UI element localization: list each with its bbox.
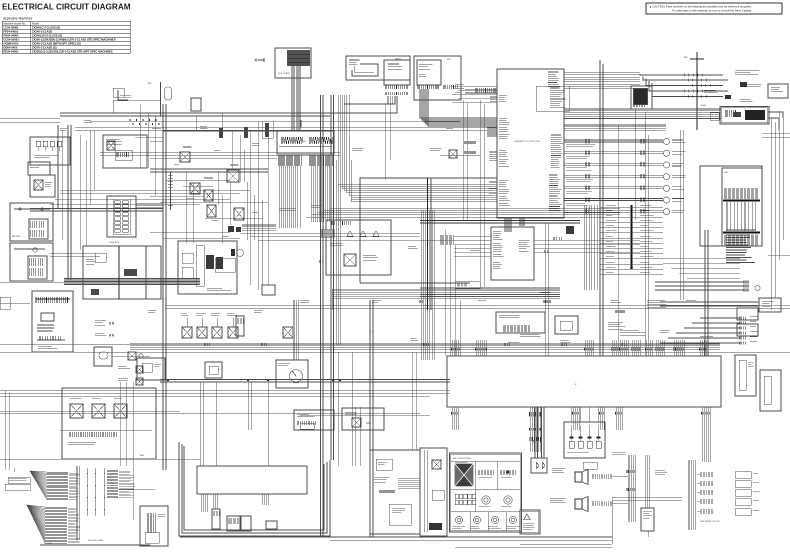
light switch box: [496, 312, 545, 333]
bottom labels: [225, 532, 243, 534]
heavy vertical pair center: [427, 178, 429, 310]
wire bottom left edge: [13, 468, 15, 472]
flasher box T2: [191, 98, 201, 111]
far right box: [760, 370, 781, 411]
key harness bundle left: [280, 166, 301, 228]
relay K4: [190, 183, 200, 194]
R-A labels: [106, 139, 122, 144]
relay K8: [234, 208, 244, 220]
bottom small box: [641, 508, 654, 531]
wires A3 elbow right into controller: [420, 108, 497, 118]
key switch SW1: [277, 131, 334, 154]
slow blow label: [120, 95, 131, 97]
AC grid lines: [451, 489, 521, 491]
wire from controller down left: [479, 100, 481, 287]
connector bar bottom: [723, 232, 760, 234]
vertical bundle center: [336, 160, 340, 345]
component X3: [136, 378, 143, 385]
stub groups above big box: [452, 340, 460, 356]
small connector under key: [321, 229, 334, 237]
relay K10: [352, 418, 361, 427]
bundle y289 left extension: [332, 289, 560, 310]
key switch contacts left: [281, 137, 303, 144]
bat tick: [690, 58, 704, 60]
AC row1 labels: [479, 476, 492, 478]
svg-text:SW: SW: [303, 141, 306, 143]
fan2 labels: [68, 508, 80, 543]
fusible links: [36, 141, 41, 147]
connector wires: [727, 202, 756, 231]
relay box above fans: [62, 388, 156, 459]
svg-text:GROUND (CAB): GROUND (CAB): [88, 539, 103, 542]
AC connector right: [531, 458, 547, 473]
long horizontals mid right: [165, 304, 790, 306]
squiggle wires: [86, 468, 89, 516]
top band mesh horizontals: [100, 151, 340, 153]
routing rectangles bottom: [179, 442, 330, 536]
console fan wires: [398, 477, 420, 479]
mid bus 2: [160, 380, 450, 383]
hour meter A7: [205, 362, 222, 378]
caution note box: [646, 3, 782, 14]
fusible link box F1: [30, 137, 70, 165]
controller output rows to lamps: [564, 139, 663, 141]
G1 top pin row: [36, 297, 68, 303]
svg-text:Machine model No.: Machine model No.: [4, 21, 27, 25]
controller left stub wires: [487, 119, 497, 121]
x530 bundle dark segments: [530, 437, 531, 441]
cab harness relay box A5: [720, 107, 769, 125]
box A1 internal wire: [352, 64, 378, 76]
junction dots: [167, 380, 341, 382]
component X2: [136, 366, 143, 373]
controller right pin labels g4: [549, 175, 562, 213]
long vertical pair B: [330, 95, 332, 460]
resistor chain vertical: [168, 175, 173, 205]
glow controller box G1: [32, 291, 73, 352]
long wire y390: [0, 389, 450, 391]
washer pump cylinder: [212, 509, 220, 529]
key switch bar: [279, 145, 332, 147]
cigar lighter box: [710, 112, 719, 120]
ECM pin grid: [287, 50, 309, 66]
wires A3 down to bus: [420, 89, 428, 118]
bus k3: [150, 168, 268, 170]
bottom right extra wires: [520, 543, 612, 545]
converter inner: [145, 532, 159, 543]
left edge wires y118: [0, 117, 60, 119]
relay box connector strip: [70, 432, 116, 437]
table rows text: [4, 25, 116, 53]
A6 labels: [762, 301, 773, 306]
wire slow blow: [113, 100, 160, 102]
harness fan 2: [27, 505, 45, 543]
fan1 left connector boxes: [8, 477, 30, 483]
bottom bus to line: [647, 531, 649, 537]
A3 labels: [419, 64, 432, 69]
bus band verticals: [162, 104, 164, 470]
routing rect bottom: [360, 282, 470, 284]
svg-text:FF04-04001-: FF04-04001-: [4, 29, 20, 33]
relay K6: [207, 205, 216, 217]
long wire y393: [0, 392, 450, 394]
wires left top: [57, 125, 59, 208]
left vertical bundle x420-436: [421, 210, 434, 360]
A2 connector pins: [386, 85, 407, 89]
relay K12: [344, 254, 356, 266]
bottom center extra verticals: [354, 407, 356, 466]
label rows right-mid: [600, 206, 663, 208]
wire left edge 2: [0, 302, 30, 304]
component X1: [128, 352, 136, 360]
fan vertical bus: [76, 466, 80, 540]
A8 labels: [278, 363, 290, 365]
radio cd module A10: [491, 227, 534, 280]
long label line: [118, 488, 155, 490]
F1 labels: [34, 155, 58, 158]
center bottom vertical bus: [628, 455, 636, 522]
AC labels bottom: [452, 527, 465, 529]
svg-text:ZX270-3 CLASS (S): ZX270-3 CLASS (S): [32, 45, 57, 49]
svg-text:ZX240LCH-3 CLASS (S): ZX240LCH-3 CLASS (S): [32, 33, 62, 37]
relay dark block: [745, 110, 765, 120]
right mid boxes: [737, 308, 758, 320]
stub groups below big box: [452, 407, 458, 430]
key harness labels mid: [279, 208, 296, 210]
svg-text:ZX200-3,225US(R)-3,240(N)-3,27: ZX200-3,225US(R)-3,240(N)-3,270-3 CLASS …: [32, 37, 116, 41]
tuner labels: [330, 243, 342, 245]
M1 dark cluster b: [216, 257, 223, 269]
wires row2: [660, 301, 758, 303]
solenoid V5: [283, 327, 293, 338]
wire left edge 1: [0, 281, 64, 283]
band tick marks: [130, 119, 156, 121]
connector CN-3 ticks: [476, 88, 497, 93]
fuse box inner strip: [113, 199, 130, 234]
ECM grid line: [288, 53, 310, 55]
bus rows to right with ticks: [640, 74, 723, 75]
condenser row: [455, 281, 480, 288]
small box T1: [113, 88, 124, 97]
bottom left edge verticals: [4, 390, 6, 470]
routing rect big center: [360, 178, 497, 283]
console rows: [374, 477, 389, 482]
ignition small box: [94, 347, 112, 366]
svg-text:HCM04-001-: HCM04-001-: [4, 41, 19, 45]
A2 connector pins row2: [386, 92, 407, 95]
mechatro controller U2: [497, 69, 564, 218]
box A1 internal wire2: [354, 66, 374, 72]
heavy vertical right-mid: [631, 205, 633, 268]
relay mesh horizontals: [166, 179, 230, 181]
svg-text:(SEE WIPER CIRCUIT): (SEE WIPER CIRCUIT): [700, 521, 720, 523]
controller output bus 3: [564, 125, 666, 130]
solenoid V4: [228, 327, 238, 338]
controller output bus top: [564, 72, 640, 74]
left edge small box: [0, 297, 10, 309]
svg-text:To order parts on the drawing,: To order parts on the drawing, be sure t…: [672, 9, 752, 13]
component box tb: [262, 121, 273, 138]
right fanout boxes: [700, 472, 713, 477]
SAE label block: [726, 230, 756, 263]
tick group right of center: [465, 141, 475, 144]
battery cells: [30, 221, 44, 228]
AC condenser icon dark: [455, 464, 473, 486]
svg-text:KEY: KEY: [447, 59, 452, 61]
battery cells frame: [29, 219, 48, 239]
right edge stubs: [762, 132, 790, 134]
heavy bus above A10: [420, 220, 580, 222]
slow blow fuse F2: [28, 162, 50, 175]
tuner aux components: [347, 231, 379, 236]
J1 dark cluster: [124, 269, 137, 276]
M1 vertical strip: [196, 245, 204, 286]
small box A11: [555, 316, 578, 334]
relay K13: [449, 150, 457, 158]
main power bus dark: [64, 279, 200, 285]
wire left column mid: [0, 343, 160, 345]
wide lower box A12: [197, 466, 307, 494]
G1 inner relay: [41, 313, 54, 321]
svg-text:ZX240-3 CLASS (WITH OPT. SPEC): ZX240-3 CLASS (WITH OPT. SPEC) (S): [32, 41, 81, 45]
wires J1939 with X ticks: [655, 281, 744, 283]
connector bar block CAB/DECK: [722, 168, 762, 246]
wires A10 right to right side: [534, 239, 640, 241]
console inner box: [389, 504, 411, 525]
vertical bundle x584: [584, 205, 597, 290]
tuner aux pins top: [332, 221, 351, 225]
relay mesh verticals: [185, 172, 187, 243]
svg-text:MECHATRO CONTROLLER: MECHATRO CONTROLLER: [514, 140, 540, 143]
svg-text:Model: Model: [32, 21, 39, 25]
wires down from mid: [199, 382, 201, 466]
mid right label rows: [647, 300, 667, 307]
small box motor: [266, 521, 277, 529]
controller right pin labels g3 dense: [551, 135, 563, 168]
box A1 labels: [349, 60, 359, 65]
scattered labels band3: [540, 292, 550, 294]
solenoid V1: [182, 327, 192, 338]
speaker 1: [575, 470, 588, 485]
warning box bottom: [520, 510, 540, 534]
monitor screen dark: [634, 89, 647, 104]
safety relay inner: [417, 60, 441, 85]
top right corner small box: [768, 84, 788, 98]
fuel sender box right: [735, 355, 756, 396]
far right mid box: [700, 166, 762, 246]
A10 right labels: [519, 240, 530, 251]
AC connector pins: [536, 462, 539, 469]
A3 pins g2: [444, 85, 457, 89]
junction box J1: [83, 246, 161, 299]
wire bundle into gauge: [293, 300, 298, 360]
solenoid V3: [212, 327, 222, 338]
left low mesh: [119, 382, 121, 466]
tiny labels bottom right: [655, 470, 667, 475]
R-A inner: [115, 150, 132, 160]
receiver box A6: [759, 298, 781, 312]
wire elbow A2 to left bus: [344, 96, 395, 104]
controller left pin labels g3: [499, 150, 509, 166]
key pin labels right dark: [309, 155, 332, 166]
wires A10 left: [454, 235, 491, 237]
connector arrows right-mid: [554, 237, 562, 240]
controller bottom stubs: [505, 218, 511, 232]
top-left wire entry: [118, 90, 128, 100]
battery terminal: [19, 208, 21, 210]
fuel labels upper: [95, 320, 106, 325]
B2 wire: [14, 248, 45, 250]
A5 pins: [726, 110, 736, 117]
verticals misc bottom: [544, 223, 546, 356]
svg-text:2P 150A: 2P 150A: [44, 542, 52, 545]
gauge dial: [290, 370, 303, 383]
harness fan 1: [30, 471, 47, 500]
center bundle elbows to horizontal band: [338, 130, 497, 184]
controller right pin labels g2: [550, 88, 566, 108]
speaker labels left: [552, 468, 566, 473]
A2 labels: [388, 64, 402, 69]
solenoid V2: [197, 327, 207, 338]
relay box labels: [68, 442, 96, 445]
controller left stub group4: [490, 96, 497, 98]
battery relay K2: [30, 175, 55, 197]
G1 mid pins: [40, 336, 61, 340]
svg-text:DD04-0401-: DD04-0401-: [4, 45, 19, 49]
svg-text:CC04-05001-: CC04-05001-: [4, 37, 20, 41]
warning box content: [524, 514, 530, 520]
R-A pin strip: [117, 152, 128, 157]
tick clusters on main buses: [205, 343, 209, 346]
relay K5: [204, 190, 213, 201]
monitor pins: [633, 105, 644, 108]
gauge box A8: [276, 360, 308, 388]
svg-text:FUSE BOX: FUSE BOX: [109, 242, 120, 244]
controller left stub group3: [489, 181, 497, 183]
svg-text:KEY PLATE: KEY PLATE: [278, 72, 290, 75]
svg-text:A&P: A&P: [140, 454, 145, 457]
M1 labels: [207, 288, 231, 291]
indicator lamp circles: [663, 138, 669, 144]
controller left pin labels g4: [499, 180, 510, 205]
scattered labels band4: [254, 310, 263, 312]
wires A2 down: [388, 96, 395, 104]
bus top-left horizontal band: [60, 112, 330, 114]
wire elbow 2: [330, 96, 397, 113]
small box K9: [262, 285, 275, 295]
scattered labels band1: [152, 128, 161, 130]
fan bottom wire: [40, 544, 150, 546]
svg-text:ELECTRICAL CIRCUIT DIAGRAM: ELECTRICAL CIRCUIT DIAGRAM: [2, 3, 131, 12]
fuse box FB1: [107, 196, 136, 237]
fuse pill: [165, 87, 172, 100]
J1 inner components: [95, 253, 106, 262]
fan1 wire block: [47, 472, 68, 500]
mid bottom bundle to box: [645, 455, 649, 508]
M1 dark cluster: [206, 255, 214, 269]
right top dark blobs: [740, 82, 747, 87]
tuner relay box A1: [346, 56, 410, 80]
horn H1: [755, 285, 760, 290]
AC feed verticals: [534, 407, 536, 458]
bottom long wire: [180, 536, 612, 538]
controller left stub group2: [489, 151, 497, 153]
B2 cells frame: [28, 256, 47, 279]
air conditioner panel: [450, 453, 522, 532]
svg-text:EE04-04201-: EE04-04201-: [4, 49, 20, 53]
monitor unit A4: [631, 86, 652, 109]
relay box R-A: [103, 135, 147, 168]
svg-text:ZX200(LC)-3,225US(LC)R-3 CLASS: ZX200(LC)-3,225US(LC)R-3 CLASS STD+OPT S…: [32, 49, 113, 53]
scattered labels band5: [508, 342, 519, 344]
wires top right edge: [768, 112, 783, 118]
M1 circle: [237, 250, 244, 257]
hatch marks right bundle: [544, 300, 550, 303]
AC left side components: [420, 448, 447, 536]
fuses: [115, 201, 129, 233]
scattered labels band2: [352, 148, 364, 150]
J1 dark cluster2: [91, 289, 99, 295]
long vertical pair A: [320, 95, 322, 537]
key harness bundle right: [312, 166, 330, 222]
table applicable machines: [2, 21, 130, 54]
relay K7: [227, 170, 239, 182]
right edge long verticals: [770, 118, 772, 310]
relay K1: [107, 141, 115, 150]
washer box A9: [342, 408, 384, 430]
top mesh wires into key: [135, 136, 163, 138]
bundle band y208-218: [330, 207, 620, 209]
top band components: [219, 128, 223, 138]
switch panel inner frame: [536, 86, 569, 111]
antenna boxes: [583, 462, 597, 469]
controller right pin labels g1: [548, 72, 560, 87]
tuner aux box: [326, 220, 391, 275]
AC dot: [507, 471, 510, 474]
battery terminal2: [41, 208, 43, 210]
G1 wire row: [37, 339, 65, 341]
controller output bus 2 (to cab box): [564, 109, 721, 119]
battery relay contact: [34, 180, 43, 190]
AC relay grid: [455, 494, 476, 505]
gauge needle: [292, 371, 296, 376]
svg-text:▲ CAUTION: Parts numbers on th: ▲ CAUTION: Parts numbers on the drawing …: [649, 5, 752, 9]
long wire left edge to ac: [0, 412, 420, 414]
relay K3: [180, 152, 190, 162]
AC fan circles row2: [482, 496, 490, 504]
monitor screen frame: [634, 89, 648, 105]
rotated labels bottom: [724, 235, 758, 247]
staircase right mid: [655, 257, 740, 259]
power bus vertical: [118, 246, 120, 299]
svg-text:LC04-05001-: LC04-05001-: [4, 25, 20, 29]
safety relay box A3: [414, 56, 461, 100]
wires key to left connection: [300, 120, 302, 127]
M1 dark blob: [231, 249, 235, 256]
A3 pins g1: [418, 85, 439, 89]
A12 pins below: [201, 494, 208, 512]
AC thermo rows: [478, 470, 493, 475]
dark cluster right-mid: [566, 226, 574, 234]
cab harness frame big: [447, 356, 721, 407]
A10 left pin labels: [493, 231, 503, 240]
long wire y352: [0, 351, 790, 353]
connector block left of A10: [440, 235, 453, 245]
right top label texts: [735, 70, 760, 74]
M1 sub3: [215, 258, 235, 272]
battery box B1: [10, 203, 53, 241]
dense stub labels above big box right: [700, 336, 717, 338]
